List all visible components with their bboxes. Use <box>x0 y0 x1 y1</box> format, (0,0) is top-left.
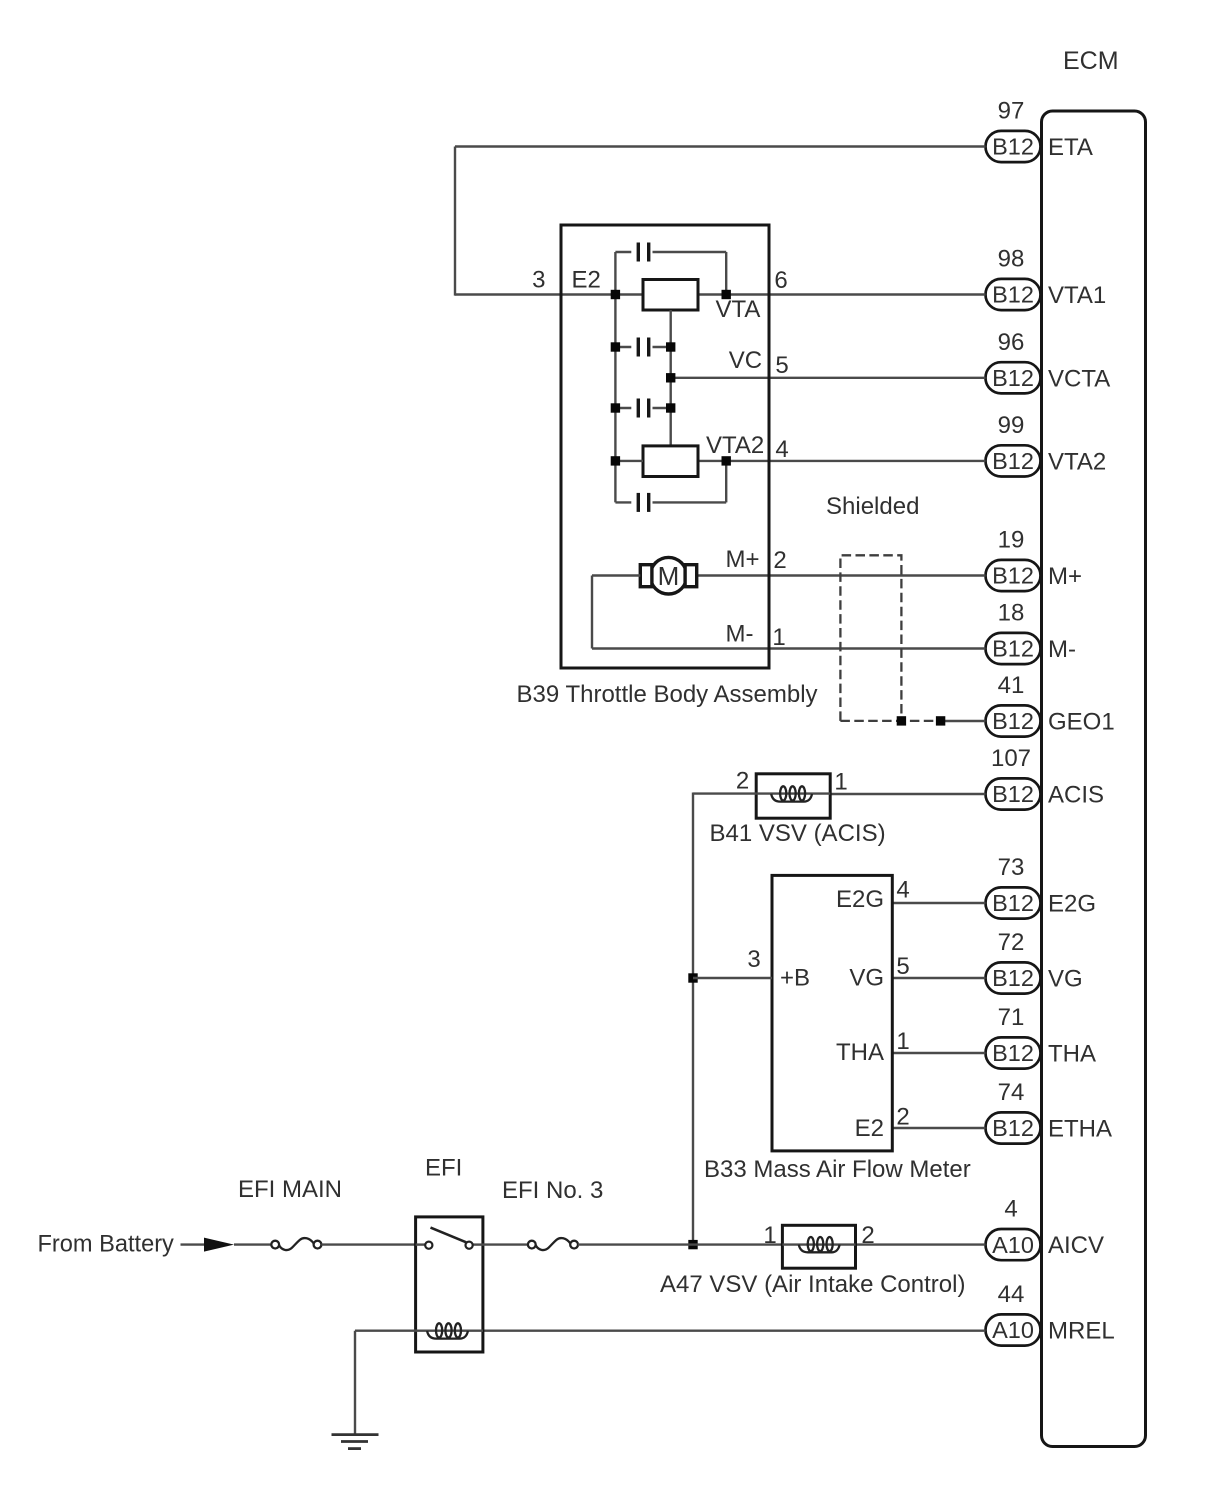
capacitor C3 <box>637 399 651 418</box>
connector terminal B12 pin 18 (M-) <box>986 633 1041 664</box>
wire top capacitor wire right <box>653 251 727 253</box>
svg-text:B12: B12 <box>992 134 1034 160</box>
connector terminal B12 pin 99 (VTA2) <box>986 445 1041 476</box>
svg-text:EFI MAIN: EFI MAIN <box>238 1176 342 1203</box>
svg-text:ETA: ETA <box>1048 134 1093 161</box>
wire ETHA to ECM pin 74 <box>892 1127 985 1129</box>
svg-text:2: 2 <box>736 768 749 795</box>
battery flow arrow <box>204 1238 234 1252</box>
svg-text:A10: A10 <box>992 1317 1034 1343</box>
wire capacitor C3 wire left <box>615 407 631 409</box>
inductor L1 (B41 VSV coil) <box>771 786 812 801</box>
connector terminal A10 pin 4 (AICV) <box>986 1229 1041 1260</box>
node junction wiper/C2 <box>666 342 675 351</box>
wire bottom capacitor wire right <box>653 501 727 503</box>
svg-text:EFI No. 3: EFI No. 3 <box>502 1177 603 1204</box>
connector terminal B12 pin 19 (M+) <box>986 560 1041 591</box>
connector terminal B12 pin 107 (ACIS) <box>986 778 1041 809</box>
svg-text:71: 71 <box>998 1004 1025 1031</box>
wire ETA horizontal from ECM pin 97 <box>455 145 986 147</box>
svg-text:AICV: AICV <box>1048 1232 1104 1259</box>
wire ETA vertical drop to E2 <box>454 147 456 296</box>
capacitor C2 <box>637 338 651 357</box>
connector terminal B12 pin 72 (VG) <box>986 962 1041 993</box>
svg-text:4: 4 <box>896 877 909 904</box>
svg-text:74: 74 <box>998 1079 1025 1106</box>
wire B41 pin 2 lead to left bus <box>693 792 756 794</box>
connector terminal B12 pin 74 (ETHA) <box>986 1112 1041 1143</box>
solenoid valve B41 VSV (ACIS) outline <box>756 774 830 818</box>
capacitor C1 (VTA to E2) <box>637 243 651 262</box>
node junction VTA2 <box>722 456 731 465</box>
node junction bus/C2 <box>611 342 620 351</box>
svg-text:5: 5 <box>775 352 788 379</box>
connector terminal B12 pin 98 (VTA1) <box>986 279 1041 310</box>
wire GEO1 shield drain to ECM pin 41 <box>941 720 986 722</box>
resistor R1 (throttle position sensor element) <box>643 280 698 311</box>
svg-text:+B: +B <box>780 965 810 992</box>
wire bottom capacitor rise to VTA2 node <box>725 461 727 503</box>
svg-text:96: 96 <box>998 329 1025 356</box>
svg-text:A47 VSV (Air Intake Control): A47 VSV (Air Intake Control) <box>660 1271 965 1298</box>
svg-text:B12: B12 <box>992 890 1034 916</box>
wire top capacitor drop to VTA node <box>725 252 727 295</box>
svg-text:E2G: E2G <box>1048 891 1096 918</box>
svg-text:B12: B12 <box>992 365 1034 391</box>
wire VTA1 from resistor to ECM pin 98 <box>698 293 986 295</box>
svg-text:B12: B12 <box>992 1115 1034 1141</box>
wire sensor wiper vertical <box>670 310 672 446</box>
svg-text:19: 19 <box>998 527 1025 554</box>
svg-text:VCTA: VCTA <box>1048 365 1110 392</box>
wire VG to ECM pin 72 <box>892 977 985 979</box>
wire E2 bus vertical inside B39 <box>614 252 616 502</box>
svg-text:107: 107 <box>991 745 1031 772</box>
wire MREL from EFI relay coil to ECM pin 44 <box>483 1329 986 1331</box>
svg-text:E2: E2 <box>572 267 601 294</box>
svg-text:5: 5 <box>896 953 909 980</box>
fuse EFI No. 3 <box>528 1238 578 1250</box>
connector terminal B12 pin 96 (VCTA) <box>986 362 1041 393</box>
throttle body assembly B39 outline <box>561 225 769 668</box>
relay switch contacts <box>425 1242 473 1249</box>
ECM connector box U1 <box>1042 111 1146 1447</box>
wire M+ to ECM pin 19 <box>696 574 985 576</box>
svg-text:2: 2 <box>861 1222 874 1249</box>
svg-text:VG: VG <box>1048 966 1083 993</box>
svg-text:1: 1 <box>763 1222 776 1249</box>
svg-text:B39 Throttle Body Assembly: B39 Throttle Body Assembly <box>517 681 818 708</box>
wire top capacitor wire left <box>615 251 631 253</box>
wire VTA2 to ECM pin 99 <box>698 460 986 462</box>
svg-text:M+: M+ <box>1048 563 1082 590</box>
svg-text:VG: VG <box>849 965 884 992</box>
wire bottom capacitor wire left <box>615 501 631 503</box>
svg-text:VC: VC <box>729 347 762 374</box>
inductor L3 (A47 VSV coil) <box>799 1237 840 1252</box>
wire E2 / VTA1 left segment into throttle body <box>455 293 643 295</box>
wire motor lead vertical to M- <box>591 576 593 649</box>
svg-text:A10: A10 <box>992 1232 1034 1258</box>
svg-text:98: 98 <box>998 246 1025 273</box>
wire EFI No. 3 fuse to A47 VSV <box>578 1243 782 1245</box>
wire relay to EFI No. 3 fuse <box>483 1243 528 1245</box>
svg-text:From Battery: From Battery <box>38 1232 175 1258</box>
node junction wiper/C3 <box>666 403 675 412</box>
wire relay common lead <box>416 1243 426 1245</box>
inductor L2 (EFI relay coil) <box>427 1323 468 1338</box>
wire EFI MAIN fuse to relay <box>321 1243 415 1245</box>
node junction bus/C3 <box>611 403 620 412</box>
svg-text:73: 73 <box>998 854 1025 881</box>
svg-text:44: 44 <box>998 1281 1025 1308</box>
svg-text:MREL: MREL <box>1048 1318 1115 1345</box>
svg-text:2: 2 <box>773 547 786 574</box>
svg-text:EFI: EFI <box>425 1155 462 1182</box>
wire battery lead <box>181 1243 206 1245</box>
wire relay NO contact lead <box>473 1243 483 1245</box>
wire capacitor C3 wire right <box>653 407 671 409</box>
node junction shield drain (GEO1) <box>936 716 945 725</box>
svg-text:M: M <box>658 561 680 591</box>
relay EFI outline <box>416 1217 483 1352</box>
wire E2G to ECM pin 73 <box>892 902 985 904</box>
svg-text:ACIS: ACIS <box>1048 782 1104 809</box>
relay switch blade <box>431 1228 467 1243</box>
wire B41 internal wire <box>756 792 830 794</box>
svg-text:4: 4 <box>775 436 788 463</box>
node junction bus/R2 <box>611 456 620 465</box>
svg-text:VTA: VTA <box>716 296 761 323</box>
mass air flow meter B33 outline <box>772 875 892 1151</box>
wire ACIS from VSV to ECM pin 107 <box>830 793 985 795</box>
wire capacitor C2 wire right <box>653 346 671 348</box>
svg-text:1: 1 <box>834 769 847 796</box>
node junction battery feed / AICV <box>688 1240 697 1249</box>
ground symbol <box>332 1435 379 1449</box>
wire VC to ECM pin 96 (VCTA) <box>671 377 986 379</box>
svg-text:M-: M- <box>726 621 754 648</box>
svg-text:4: 4 <box>1004 1196 1017 1223</box>
node junction shield corner (GEO1) <box>897 716 906 725</box>
capacitor C4 (VTA2 to E2) <box>637 493 651 512</box>
wire relay coil to ground <box>354 1331 356 1434</box>
wire battery feed vertical bus <box>692 793 694 1245</box>
wire M- to ECM pin 18 <box>592 647 986 649</box>
wire THA to ECM pin 71 <box>892 1052 985 1054</box>
resistor R2 (throttle position sensor element 2) <box>643 446 698 477</box>
svg-text:2: 2 <box>896 1104 909 1131</box>
svg-text:72: 72 <box>998 929 1025 956</box>
svg-text:B41 VSV (ACIS): B41 VSV (ACIS) <box>710 820 886 847</box>
connector terminal B12 pin 41 (GEO1) <box>986 705 1041 736</box>
node junction VTA <box>722 290 731 299</box>
svg-text:VTA2: VTA2 <box>1048 449 1106 476</box>
svg-text:B12: B12 <box>992 708 1034 734</box>
svg-text:97: 97 <box>998 98 1025 125</box>
svg-text:B12: B12 <box>992 1040 1034 1066</box>
wire battery lead to EFI MAIN fuse <box>234 1243 271 1245</box>
svg-text:ECM: ECM <box>1063 47 1119 75</box>
svg-text:B12: B12 <box>992 965 1034 991</box>
svg-text:3: 3 <box>747 946 760 973</box>
svg-text:1: 1 <box>772 624 785 651</box>
svg-text:B33 Mass Air Flow Meter: B33 Mass Air Flow Meter <box>704 1156 971 1183</box>
svg-text:B12: B12 <box>992 448 1034 474</box>
svg-text:Shielded: Shielded <box>826 493 919 520</box>
wire capacitor C2 wire left <box>615 346 631 348</box>
connector terminal A10 pin 44 (MREL) <box>986 1314 1041 1345</box>
node junction +B feed <box>688 973 697 982</box>
wire AICV from VSV to ECM pin 4 <box>856 1243 986 1245</box>
svg-text:THA: THA <box>1048 1041 1096 1068</box>
connector terminal B12 pin 97 (ETA) <box>986 131 1041 162</box>
svg-text:E2G: E2G <box>836 886 884 913</box>
connector terminal B12 pin 73 (E2G) <box>986 887 1041 918</box>
svg-text:B12: B12 <box>992 563 1034 589</box>
solenoid valve A47 VSV outline <box>782 1225 855 1268</box>
svg-text:3: 3 <box>532 267 545 294</box>
svg-text:1: 1 <box>896 1028 909 1055</box>
svg-text:M+: M+ <box>726 546 760 573</box>
connector terminal B12 pin 71 (THA) <box>986 1037 1041 1068</box>
svg-text:B12: B12 <box>992 282 1034 308</box>
fuse EFI MAIN <box>271 1238 321 1250</box>
svg-text:99: 99 <box>998 412 1025 439</box>
svg-text:VTA1: VTA1 <box>1048 282 1106 309</box>
svg-text:VTA2: VTA2 <box>706 432 764 459</box>
wire motor left lead <box>592 574 640 576</box>
node junction VC tap <box>666 373 675 382</box>
svg-text:THA: THA <box>836 1039 884 1066</box>
node junction E2/bus <box>611 290 620 299</box>
wire E2 bus to resistor R2 <box>615 460 643 462</box>
shield dashed outline <box>840 555 940 721</box>
svg-text:6: 6 <box>774 267 787 294</box>
motor M (throttle control motor) <box>640 557 696 594</box>
wire +B feed into B33 <box>693 977 772 979</box>
svg-text:41: 41 <box>998 672 1025 699</box>
svg-text:E2: E2 <box>855 1115 884 1142</box>
svg-text:18: 18 <box>998 600 1025 627</box>
wire A47 internal wire <box>782 1243 855 1245</box>
svg-text:ETHA: ETHA <box>1048 1116 1112 1143</box>
svg-text:B12: B12 <box>992 636 1034 662</box>
svg-text:B12: B12 <box>992 781 1034 807</box>
wire relay coil wire <box>355 1329 483 1331</box>
svg-text:GEO1: GEO1 <box>1048 709 1115 736</box>
svg-text:M-: M- <box>1048 636 1076 663</box>
